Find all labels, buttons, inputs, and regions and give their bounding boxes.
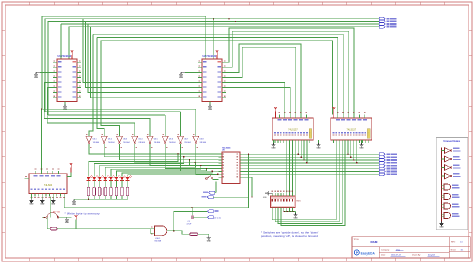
inverter unused U5 [445, 148, 451, 154]
svg-text:* Write byte to memory: * Write byte to memory [65, 212, 101, 216]
wire U2 pin3 to U3 via M1 [226, 44, 301, 115]
wire feeder F1 [42, 108, 196, 110]
ground unused gates [441, 222, 443, 224]
switch SW2 at U9 [205, 178, 207, 180]
AND gate unused 2 [444, 194, 451, 200]
wire U2 pin4 to U3 via M2 [226, 47, 295, 115]
resistor R4 [104, 180, 106, 187]
wire U3 tap 3 [303, 143, 305, 160]
svg-text:GND: GND [179, 77, 184, 79]
ground right of R19 [208, 234, 210, 236]
wire gate 2 output to bus [104, 144, 222, 157]
svg-text:EasyEDA: EasyEDA [361, 252, 376, 256]
wire LED ground rail [74, 198, 128, 200]
wire gate 6 output to bus [165, 144, 222, 168]
IC U5 74LS245 register [29, 174, 67, 194]
wire data bus row 3 [243, 159, 379, 161]
wire U9 pin9 drop [240, 176, 252, 178]
ground right of button [66, 217, 68, 219]
ground below U1 [64, 102, 66, 105]
wire LED feeder 2 [94, 157, 184, 177]
inverter unused U7 [445, 165, 451, 171]
net port IO6 [379, 170, 385, 173]
svg-text:U6.5: U6.5 [154, 139, 158, 141]
svg-text:U6.4: U6.4 [138, 139, 142, 141]
svg-text:74LS04: 74LS04 [93, 142, 100, 144]
wire data bus row 5 [243, 165, 379, 167]
IC U1 74LS161 counter [57, 59, 77, 102]
wire U3 to switch 2 [289, 143, 291, 196]
wire top bus L2 [45, 19, 379, 112]
inverter gate 7 [178, 136, 184, 142]
svg-text:74LS04: 74LS04 [169, 142, 176, 144]
power VCC above U3 [275, 109, 277, 112]
wire LED feeder 7 [122, 171, 212, 176]
svg-text:Company:: Company: [381, 249, 390, 251]
net port IO5 [379, 167, 385, 170]
net port OE2 [207, 210, 213, 213]
svg-text:Unused Gates: Unused Gates [443, 140, 460, 143]
push button S1 [42, 216, 72, 218]
power VCC above U2 [216, 52, 218, 55]
svg-text:GND: GND [40, 203, 45, 205]
wire gate 4 output to bus [135, 144, 222, 162]
svg-text:U6.8: U6.8 [200, 139, 204, 141]
resistor R2 [93, 180, 95, 187]
wire U3 to switch 1 [286, 143, 288, 196]
svg-text:4.7uF: 4.7uF [187, 223, 193, 225]
resistor R3 [99, 180, 101, 187]
inverter gate 8 [193, 136, 199, 142]
svg-text:GND: GND [65, 222, 70, 224]
wire LED feeder 1 [89, 154, 178, 176]
svg-text:U6.2: U6.2 [108, 139, 112, 141]
resistor R19 [190, 233, 198, 236]
resistor R18 [47, 228, 50, 230]
net port WE [209, 191, 215, 194]
net port ADDR1 [379, 20, 385, 23]
svg-text:74LS04: 74LS04 [154, 142, 161, 144]
ground below U4 [361, 140, 363, 143]
AND gate unused 4 [444, 213, 451, 219]
svg-text:GND: GND [317, 148, 322, 150]
LED LED6 [114, 177, 118, 180]
wire U2 pin1 over to U4 [226, 28, 354, 115]
svg-text:REV:: REV: [451, 241, 456, 243]
svg-text:TITLE:: TITLE: [354, 239, 360, 241]
resistor R8 [127, 180, 129, 187]
LED LED1 [87, 177, 91, 180]
svg-text:U1 74LS161: U1 74LS161 [58, 55, 72, 58]
net port IO1 [379, 156, 385, 159]
LED LED5 [109, 177, 113, 180]
svg-text:GND: GND [72, 204, 77, 206]
wire U2 pin6 to U3 [226, 88, 290, 115]
wire data bus row 4 [243, 162, 379, 164]
wire coupling U1-U2 a [83, 19, 198, 83]
ground below U2 [209, 102, 211, 105]
left pin of U5 [25, 177, 30, 179]
wire AND output riser to OE2 port [174, 211, 207, 230]
svg-text:GND: GND [208, 109, 213, 111]
inverter unused U6 [445, 156, 451, 162]
svg-text:Date:: Date: [381, 254, 386, 257]
wire feeder F4 [44, 83, 150, 137]
svg-text:74LS04: 74LS04 [108, 142, 115, 144]
ground U5 pin [52, 196, 54, 198]
wire U4 to switch loop 2 [275, 143, 339, 222]
wire LED feeder 3 [100, 160, 190, 177]
svg-text:Drawn By:: Drawn By: [412, 254, 421, 257]
net port IO2 [379, 159, 385, 162]
svg-text:GND: GND [360, 148, 365, 150]
wire top bus L5 [69, 26, 379, 28]
net port ADDR0 [379, 17, 385, 20]
net port ADDR2 [379, 23, 385, 26]
wire feeder F5 [47, 88, 134, 137]
wire coupling U1-U2 b [86, 21, 198, 87]
wire U4 tap 1 [347, 143, 349, 154]
wire U5 feed to gates riser [40, 109, 42, 171]
resistor R5 [110, 180, 112, 187]
wire U4 tap 3 [353, 143, 355, 160]
wire AND output [167, 230, 174, 232]
svg-text:74LS04: 74LS04 [44, 184, 53, 187]
ground at U1 left [40, 71, 53, 73]
wire U4 tap 4 [356, 143, 358, 163]
svg-text:U6.6: U6.6 [169, 139, 173, 141]
wire top bus L1 [42, 16, 206, 109]
IC U9 74LS245 transceiver [222, 152, 240, 184]
LED LED7 [120, 177, 124, 180]
svg-text:GND: GND [272, 148, 277, 150]
resistor R1 [88, 180, 90, 187]
wire data bus row 6 [243, 168, 379, 170]
wire gate 7 output to bus [181, 144, 223, 171]
svg-text:U6.3: U6.3 [123, 139, 127, 141]
wire top bus L4 [61, 23, 379, 25]
ground LED rail [73, 199, 75, 201]
wire LED feeder 5 [111, 166, 201, 177]
wire feeder F3 [48, 114, 165, 116]
wire LED feeder 4 [105, 163, 195, 177]
wire feeder F2 [45, 111, 181, 113]
inverter unused U8 [445, 173, 451, 179]
wire top bus L6 [93, 34, 343, 114]
inverter gate 4 [132, 136, 138, 142]
wire gate 3 output to bus [119, 144, 222, 160]
net port IO7 [379, 173, 385, 176]
inverter gate 3 [116, 136, 122, 142]
svg-text:(1 to 1): (1 to 1) [214, 217, 221, 220]
wire gate 5 output to bus [150, 144, 222, 165]
wire resistor to AND gate [57, 228, 150, 230]
AND gate unused 3 [444, 203, 451, 209]
AND gate U10.1 [154, 226, 166, 236]
LED LED4 [103, 177, 107, 180]
svg-text:GND: GND [440, 226, 445, 228]
capacitor C1 [191, 208, 193, 216]
inverter gate 5 [147, 136, 153, 142]
unused gates input rail [441, 148, 443, 222]
inverter gate 2 [101, 136, 107, 142]
net port C1right [207, 216, 213, 219]
LED LED8 [126, 177, 130, 180]
svg-text:GND: GND [34, 77, 39, 79]
wire long return to write circuit [64, 196, 248, 207]
IC U4 74LS157 [331, 118, 372, 140]
LED LED3 [98, 177, 102, 180]
wire U4 to switch loop 1 [272, 143, 336, 220]
wire data bus row 8 [243, 173, 379, 175]
wire U2 pin5 to U3 [226, 83, 285, 115]
EasyEDA logo [354, 250, 359, 255]
resistor R7 [121, 180, 123, 187]
wire AND out to R19 [174, 231, 190, 234]
ground U5 pin [30, 196, 32, 198]
wire data bus row 2 [243, 156, 379, 158]
power VCC above U4 [333, 109, 335, 112]
wire data bus row 7 [243, 171, 379, 173]
power VCC write [75, 217, 77, 220]
svg-text:U2 74LS161: U2 74LS161 [203, 55, 217, 58]
ground below U3 [273, 140, 275, 143]
svg-text:1.0: 1.0 [460, 241, 463, 243]
wire R19 to ground [198, 233, 209, 235]
title block [352, 237, 470, 258]
wire gate 8 output to bus [196, 144, 222, 174]
svg-text:74LS04: 74LS04 [138, 142, 145, 144]
IC U2 74LS161 counter [202, 59, 222, 102]
inverter gate 6 [162, 136, 168, 142]
svg-text:GND: GND [207, 241, 212, 243]
svg-text:74LS08: 74LS08 [154, 241, 162, 243]
svg-text:U6.7: U6.7 [184, 139, 188, 141]
net port ADDR3 [379, 25, 385, 28]
vertical from U5 area [50, 196, 52, 217]
svg-text:74LS157: 74LS157 [288, 128, 298, 131]
svg-text:74LS157: 74LS157 [347, 128, 357, 131]
svg-text:GND: GND [51, 203, 56, 205]
svg-text:1/1: 1/1 [461, 249, 464, 251]
wire C1 to port [193, 216, 208, 218]
ground U5 pin [41, 196, 43, 198]
svg-text:U6.1: U6.1 [93, 139, 97, 141]
ground between U3 U4 [318, 140, 320, 143]
ground at U2 left [185, 71, 198, 73]
wire top bus L3 [48, 21, 379, 115]
inverter gate 1 [86, 136, 92, 142]
net port OE [207, 196, 213, 199]
wire U3 to switch 3 [291, 143, 293, 196]
svg-text:74LS04: 74LS04 [200, 142, 207, 144]
net port IO4 [379, 164, 385, 167]
power VCC right of U5 [70, 165, 72, 168]
wire top bus L7 [97, 38, 338, 115]
svg-text:GND: GND [29, 203, 34, 205]
net port IO3 [379, 161, 385, 164]
DIP switch SW1 [271, 196, 296, 208]
LED LED2 [92, 177, 96, 180]
svg-text:74LS245: 74LS245 [222, 146, 231, 149]
wire gate 1 output to bus [89, 144, 222, 154]
svg-text:position, meaning 'off', is cl: position, meaning 'off', is closed to Gr… [261, 234, 318, 238]
power VCC above U1 [71, 52, 73, 55]
AND gate unused 1 [444, 184, 451, 190]
wire U3 tap 1 [297, 143, 299, 154]
wire U4 to switch loop 3 [278, 143, 342, 224]
wire U3 tap 4 [306, 143, 308, 163]
wire WE riser [215, 182, 217, 193]
wire OE to C1 junction [213, 196, 248, 198]
svg-text:GND: GND [294, 218, 299, 220]
wire LED feeder 6 [116, 168, 206, 176]
svg-text:74LS04: 74LS04 [123, 142, 130, 144]
ground left of SW1 [268, 192, 272, 194]
wire U3 tap 2 [300, 143, 302, 157]
wire coupling U1-U2 c [88, 24, 198, 93]
IC U3 74LS157 [272, 118, 313, 140]
net port IO0 [379, 153, 385, 156]
wire VCC to resistor rail [75, 220, 77, 229]
wire AND inputs [150, 228, 154, 230]
wire U3 to switch 4 [294, 143, 296, 196]
wire coupling U1-U2 d [91, 27, 198, 98]
wire data bus row 1 [243, 153, 379, 155]
wire button left drop [46, 217, 48, 228]
wire bus row tap drop [248, 154, 250, 197]
ground below SW1 [295, 213, 297, 215]
wire U4 to switch loop 4 [281, 143, 345, 225]
wire top bus L8 [101, 41, 332, 115]
resistor R6 [115, 180, 117, 187]
wire IC2 top second riser [213, 19, 215, 59]
wire SW1 lower pins to ground [284, 211, 295, 213]
wire U4 tap 2 [350, 143, 352, 157]
wire LED feeder 8 [128, 174, 218, 176]
svg-text:Sheet:: Sheet: [451, 248, 457, 251]
svg-text:RAM: RAM [371, 240, 378, 244]
wire U2 pin2 over to U4 [226, 31, 348, 115]
svg-text:74LS04: 74LS04 [184, 142, 191, 144]
unused gates box [436, 138, 468, 230]
